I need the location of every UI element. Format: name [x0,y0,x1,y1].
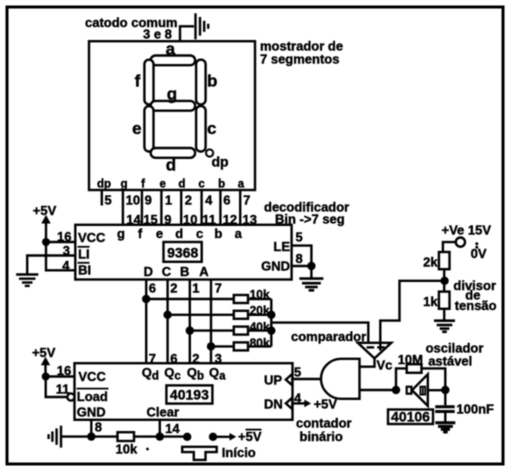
segment b [196,60,206,105]
counter U4 40193 box [75,363,293,420]
op-amp U2 comparator [358,343,392,359]
svg-text:B: B [180,264,189,279]
wire +5V to Load pin 11 [46,377,68,398]
svg-text:6: 6 [223,192,230,207]
svg-text:Clear: Clear [147,404,180,419]
svg-text:40193: 40193 [170,387,209,403]
svg-text:g: g [120,178,127,190]
+5V supply (top left) [33,203,57,242]
svg-text:DN: DN [264,396,283,411]
wire 10M to input node [422,368,446,390]
svg-text:+5V: +5V [314,397,338,412]
svg-text:binário: binário [300,429,343,444]
wire segment f display to decoder [141,190,143,225]
svg-text:e: e [159,178,165,190]
resistor R_1k [439,292,450,309]
node divider [440,277,448,285]
svg-text:d: d [175,226,183,241]
schmitt inverter U5 40106 [412,374,428,406]
segment d [151,148,195,158]
node bus 40k [267,326,275,334]
svg-text:c: c [196,226,203,241]
svg-text:VCC: VCC [78,230,106,245]
pin numbers 7 6 2 3 above 40193 [149,351,222,366]
wire segment b display to decoder [219,190,221,225]
wire C branch to resistor [168,314,234,316]
decoder pin numbers (top) [126,212,257,227]
wire osc feedback top [396,368,407,390]
svg-text:a: a [166,40,176,59]
40193 name box [166,385,212,403]
segment f [144,60,153,105]
wire button to +5V [213,436,231,438]
ground GND6 (capacitor) [435,423,455,432]
9368 name box [164,242,202,262]
svg-text:+5V: +5V [33,203,57,218]
label catodo comum [85,15,177,42]
segment c [196,106,206,151]
node +5V counter junction [42,373,50,381]
wire D branch to resistor [146,298,234,300]
segment e [144,106,153,151]
wire DN to +5V [293,402,306,404]
svg-text:2: 2 [170,280,177,295]
wire Clear pin 14 [159,420,161,437]
node A branch [207,342,215,350]
wire segment a display to decoder [239,190,241,225]
svg-text:7: 7 [243,192,250,207]
ground GND4 (sideways, bottom left) [49,426,61,448]
svg-text:C: C [162,264,172,279]
resistor R_10M [407,364,422,373]
svg-text:A: A [199,264,209,279]
pin numbers 6 2 1 7 below 9368 [149,280,222,295]
wire 2k to node [443,269,445,291]
svg-text:7: 7 [215,280,222,295]
ground GND5 (divider) [434,321,455,332]
wire inverter input [428,389,446,391]
resistor R_40k [234,327,248,335]
svg-text:b: b [214,226,222,241]
svg-text:2k: 2k [423,254,438,269]
svg-text:comparador: comparador [291,329,366,344]
oscillator section [426,341,484,369]
resistor R_2k [439,252,450,269]
wire summing bus [270,299,272,346]
Q output labels [142,365,226,383]
wire bus to comparator input [271,323,368,347]
resistor R_20k [234,311,248,319]
40106 name box [388,410,433,425]
schmitt inverter U5 bubble [407,387,412,394]
dp LED [206,149,213,156]
segment g [151,101,195,111]
node bus 20k [267,311,275,319]
wire segment c display to decoder [200,190,202,225]
pin numbers 16 3 4 left of 9368 [57,229,71,273]
wire terminal to 2k [443,242,456,252]
svg-text:f: f [141,178,145,190]
svg-text:d: d [178,178,185,190]
label divisor de tensao [453,278,496,313]
svg-text:d: d [166,156,176,175]
svg-text:4: 4 [205,192,213,207]
svg-text:10: 10 [126,192,140,207]
pin numbers 5 8 right of 9368 [296,230,303,266]
wire +5V to VCC pin 16 [46,375,75,377]
svg-text:GND: GND [261,258,290,273]
wire AND input to oscillator [360,389,397,391]
UP DN labels and arrows [264,364,302,411]
label decodificador [264,200,349,227]
svg-text:dp: dp [97,178,111,190]
resistor R_10k clear [118,432,135,441]
wire 1k to ground [443,309,445,320]
svg-text:14: 14 [165,421,180,436]
pin 11 bubble [67,393,74,400]
wire segment d display to decoder [180,190,182,225]
node LE/GND junction [307,262,315,270]
wire +5V to BI pin 4 [46,242,75,270]
wire A output to Qa [210,280,212,364]
svg-text:5: 5 [296,230,303,245]
svg-text:5: 5 [294,364,301,379]
wire B output to Qb [189,280,191,364]
node pin 8 junction [87,432,95,440]
wire +5V to VCC pin 16 [46,241,75,243]
svg-text:VCC: VCC [78,369,106,384]
svg-text:LE: LE [273,239,290,254]
node clear junction [156,432,164,440]
svg-text:2: 2 [185,192,192,207]
svg-text:Vc: Vc [377,358,393,373]
wire D output to Qd [145,280,147,364]
wire GND pin 8 [90,420,92,437]
node button left terminal [183,433,191,441]
node inverter input [441,386,449,394]
segment a [151,56,195,66]
svg-text:b: b [218,178,225,190]
wire LI pin 3 to ground [27,256,75,275]
wire segment g display to decoder [122,190,124,225]
ground GND3 (right of 9368) [299,279,323,291]
svg-text:LI: LI [78,247,90,262]
7-segment display box [89,41,255,190]
svg-text:e: e [156,226,163,241]
wire B branch to resistor [190,329,234,331]
wire A branch to resistor [211,345,234,347]
svg-text:GND: GND [77,404,106,419]
svg-text:100nF: 100nF [456,401,494,416]
svg-text:6: 6 [149,280,156,295]
svg-text:11: 11 [56,381,70,396]
node button right terminal [209,433,217,441]
label contador binario [296,416,352,444]
segment labels [132,40,217,175]
svg-text:BI: BI [78,263,91,278]
wire C output to Qc [166,280,168,364]
svg-text:+Ve 15V: +Ve 15V [442,222,492,237]
svg-text:16: 16 [57,363,71,378]
node B branch [186,326,194,334]
wire to ground [310,266,312,278]
+5V supply (bottom left) [32,345,56,377]
svg-text:5: 5 [105,192,112,207]
resistor R_80k [234,342,248,350]
svg-text:f: f [135,72,141,91]
node C branch [163,311,171,319]
svg-text:e: e [132,119,141,138]
svg-text:1: 1 [165,192,172,207]
wire AND output to UP pin 5 [293,378,322,380]
svg-text:+5V: +5V [32,345,56,360]
display pin numbers [105,192,251,207]
svg-text:Início: Início [222,445,256,460]
svg-text:7 segmentos: 7 segmentos [260,52,339,67]
op-amp U1 9368 decoder box [75,225,291,280]
svg-text:UP: UP [264,372,282,387]
svg-text:9: 9 [145,192,152,207]
wire resistor leads to summing bus [248,299,271,346]
svg-text:a: a [235,226,243,241]
svg-text:g: g [167,85,177,104]
svg-text:8: 8 [95,419,102,434]
svg-text:c: c [198,178,205,190]
svg-text:D: D [144,264,153,279]
svg-text:dp: dp [212,153,229,169]
svg-text:c: c [207,119,216,138]
wire comparator output Vc to AND gate [360,358,375,367]
svg-text:40106: 40106 [391,409,430,425]
resistor R_10k [234,295,248,303]
AND gate U3 [321,359,359,399]
push button Inicio [182,447,217,460]
wire catodo to ground [180,26,194,41]
svg-text:0V: 0V [471,246,487,261]
9368 internal labels [78,230,107,278]
wire dp pin 5 stub [101,190,103,206]
label mostrador de 7 segmentos [260,38,343,66]
node D branch [142,295,150,303]
node oscillator output [392,386,400,394]
wire GND pin 8 to ground [292,265,312,267]
svg-text:a: a [238,178,245,190]
terminal +Ve [456,238,465,247]
svg-text:1: 1 [192,280,199,295]
wire segment e display to decoder [160,190,162,225]
svg-text:8: 8 [296,251,303,266]
svg-text:astável: astável [428,353,472,368]
svg-text:b: b [207,72,217,91]
ground GND2 (left of 9368) [16,275,38,286]
svg-text:+5V: +5V [238,429,262,444]
node +5V junction [42,238,50,246]
capacitor C1 100nF [444,390,446,405]
ground GND1 (sideways, common cathode) [196,13,209,39]
svg-text:tensão: tensão [455,298,497,313]
wire divider node to comparator input [380,281,445,351]
svg-text:80k: 80k [250,336,270,350]
svg-text:10k: 10k [116,442,138,457]
svg-text:g: g [117,226,125,241]
label +Ve 15V / 0V [442,222,492,261]
svg-text:1k: 1k [423,294,438,309]
wire resistor to clear pin [134,435,187,437]
display pin name row [97,178,245,190]
svg-text:Load: Load [77,389,108,404]
wire ground to clear rail [61,435,118,437]
svg-text:9368: 9368 [167,244,198,260]
svg-text:f: f [138,226,143,241]
wire LE pin 5 to ground [292,246,312,266]
